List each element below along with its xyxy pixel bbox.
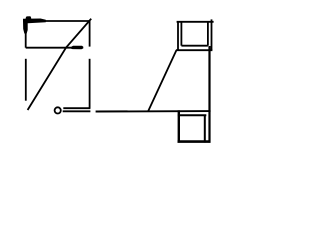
wire: top edge of left box bbox=[23, 20, 90, 22]
lower-right vertical wire bbox=[89, 59, 91, 108]
lower box bottom edge bbox=[63, 107, 90, 109]
wire: bottom edge of left box bbox=[26, 47, 72, 49]
top square: right outer edge bbox=[211, 19, 213, 50]
bottom square: right edge bbox=[204, 115, 206, 142]
wire: right edge of left box bbox=[89, 21, 91, 47]
tall vertical rod bbox=[208, 46, 210, 143]
top square: outer bottom edge bbox=[176, 49, 213, 51]
long diagonal of left structure bbox=[28, 19, 92, 110]
thick dash highlight on bottom edge bbox=[71, 46, 83, 50]
thick corner highlight mark bbox=[23, 16, 46, 33]
top square: inner bottom edge bbox=[181, 45, 208, 47]
top square: top edge bbox=[177, 21, 214, 23]
bottom square: bottom edge bbox=[178, 140, 211, 143]
diagonal of right structure bbox=[148, 50, 176, 111]
circle terminal bbox=[55, 107, 61, 113]
main horizontal wire bbox=[96, 110, 211, 112]
top square: right inner edge bbox=[207, 22, 209, 46]
wire stub from circle bbox=[63, 110, 91, 112]
bottom square: left edge bbox=[178, 110, 180, 142]
bottom square: top edge bbox=[178, 114, 207, 116]
wire: left edge of left box bbox=[25, 21, 27, 48]
top square: left inner edge bbox=[180, 22, 182, 46]
top square: left outer edge bbox=[177, 22, 179, 50]
lower-left vertical wire bbox=[25, 59, 27, 101]
